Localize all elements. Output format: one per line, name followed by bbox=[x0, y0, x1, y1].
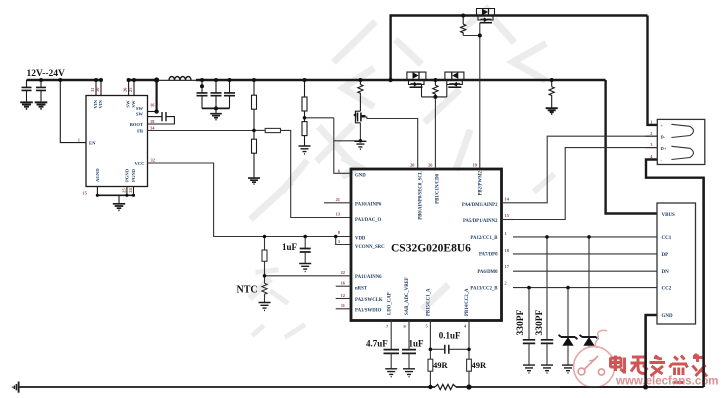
svg-text:nRST: nRST bbox=[355, 286, 368, 291]
resistor R-fb-top chain A bbox=[253, 80, 255, 95]
svg-text:2: 2 bbox=[650, 131, 652, 136]
ground mosfet node bbox=[354, 141, 366, 149]
svg-text:330PF: 330PF bbox=[516, 309, 526, 335]
svg-text:330PF: 330PF bbox=[535, 309, 545, 335]
wire Q3 gate to IC pin20 bbox=[367, 119, 418, 170]
svg-text:VIN: VIN bbox=[98, 99, 103, 108]
wire SW right vertical bbox=[156, 80, 158, 112]
svg-text:PA4/DM1/AINP2: PA4/DM1/AINP2 bbox=[462, 203, 498, 208]
svg-text:CC1: CC1 bbox=[662, 236, 672, 241]
capacitor COUT3 bbox=[229, 80, 231, 93]
svg-text:EN: EN bbox=[89, 141, 96, 146]
ground regulator bbox=[113, 204, 125, 211]
svg-text:PB15/CC1_A: PB15/CC1_A bbox=[427, 288, 432, 316]
svg-text:VCONN_SRC: VCONN_SRC bbox=[355, 245, 385, 250]
svg-text:CS32G020E8U6: CS32G020E8U6 bbox=[391, 243, 471, 255]
diode D1 zener bbox=[567, 288, 569, 338]
junction (97.4,195.3) bbox=[96, 194, 99, 197]
svg-text:PB0/AINP0/SEC0_SCL: PB0/AINP0/SEC0_SCL bbox=[419, 171, 424, 220]
junction (304.5,80) bbox=[303, 78, 307, 82]
wire VCC to VDD bbox=[148, 163, 353, 237]
resistor R-fb-bot chain A bbox=[252, 139, 257, 153]
ground C-1uF bbox=[299, 264, 311, 272]
resistor NTC zigzag bbox=[262, 283, 267, 302]
connector J2 body bbox=[657, 203, 696, 324]
capacitor bootstrap bbox=[148, 116, 162, 118]
svg-text:VCC: VCC bbox=[135, 161, 145, 166]
wire AGND/PGND bbox=[96, 187, 98, 196]
regulator U2 body bbox=[86, 96, 148, 187]
wire VIN stubs bbox=[95, 80, 97, 96]
svg-text:PA2/SWCLK: PA2/SWCLK bbox=[355, 298, 383, 303]
inductor L1 bbox=[169, 77, 191, 81]
ground NTC bbox=[259, 303, 271, 311]
junction (469,349.3) bbox=[467, 348, 471, 352]
svg-text:PGND: PGND bbox=[125, 168, 130, 182]
wire top rail bbox=[391, 16, 648, 81]
svg-text:PA10/AINP6: PA10/AINP6 bbox=[355, 203, 382, 208]
ground CIN2 bbox=[35, 102, 48, 109]
junction dot overdraw bbox=[643, 385, 648, 390]
junction (568,287.6) bbox=[566, 286, 570, 290]
wire conn1 pin1 drop bbox=[648, 16, 658, 125]
resistor R-vout zigzag to ground bbox=[551, 80, 553, 87]
resistor R-bridge zigzag bbox=[434, 80, 436, 85]
junction (156.6,111.5) bbox=[154, 109, 158, 113]
junction (551.7,80) bbox=[550, 78, 554, 82]
junction (589,236.9) bbox=[587, 235, 591, 239]
wire VBUS drop bbox=[606, 80, 657, 214]
wire chain B node to IC GND bbox=[305, 117, 334, 119]
svg-text:1uF: 1uF bbox=[282, 242, 298, 252]
left end terminal of bottom rail bbox=[12, 382, 19, 393]
svg-text:SAR_ADC_VREF: SAR_ADC_VREF bbox=[405, 277, 410, 315]
svg-text:PGND: PGND bbox=[131, 168, 136, 182]
svg-text:12V--24V: 12V--24V bbox=[27, 69, 65, 79]
junction (96,80) bbox=[94, 78, 98, 82]
diode D2 zener bbox=[588, 237, 590, 338]
svg-text:SW: SW bbox=[136, 111, 144, 116]
svg-text:CC2: CC2 bbox=[662, 287, 672, 292]
junction (133.5,195.3) bbox=[132, 194, 135, 197]
capacitor 0.1uF bbox=[430, 348, 444, 350]
wire bridge to IC pin26 bbox=[434, 97, 436, 169]
svg-text:PB14/CC2_A: PB14/CC2_A bbox=[465, 288, 470, 316]
ground chain B bbox=[299, 146, 311, 154]
capacitor COUT1 bbox=[201, 80, 203, 93]
wire conn1 pin2/3 stubs bbox=[645, 135, 657, 137]
svg-text:SW: SW bbox=[126, 100, 131, 108]
junction (435.4,80) bbox=[433, 78, 437, 82]
svg-text:1uF: 1uF bbox=[409, 339, 425, 349]
wire SW/VOUT rail bbox=[129, 79, 157, 81]
ground output caps bbox=[215, 108, 217, 113]
ground C-1uF-SAR bbox=[403, 369, 415, 377]
resistor chain B bottom bbox=[302, 122, 307, 136]
svg-text:12: 12 bbox=[341, 293, 345, 298]
junction (463.2,15.5) bbox=[461, 14, 465, 18]
junction (229.5,80) bbox=[228, 78, 232, 82]
svg-text:22: 22 bbox=[341, 270, 345, 275]
wire CC2_A column bbox=[468, 320, 470, 359]
capacitor CIN1 bbox=[22, 80, 32, 101]
svg-text:PA11/AINN6: PA11/AINN6 bbox=[355, 275, 382, 280]
junction (202,80) bbox=[200, 78, 204, 82]
svg-text:49R: 49R bbox=[472, 360, 488, 370]
transistor Q4 (top mosfet) bbox=[477, 9, 495, 23]
wire source bridge bbox=[422, 96, 447, 98]
junction (360.4,140.8) bbox=[359, 139, 363, 143]
junction (156.6,80) bbox=[154, 77, 159, 82]
junction (645.6,387) bbox=[643, 385, 648, 390]
ground R-vout bbox=[546, 108, 558, 114]
svg-text:PA5/DP1/AINN2: PA5/DP1/AINN2 bbox=[463, 219, 498, 224]
svg-text:GND: GND bbox=[662, 314, 674, 319]
junction (305.2,236.5) bbox=[303, 235, 307, 239]
wire conn1 gnd to right rail bbox=[646, 160, 704, 388]
junction (126.9,195.3) bbox=[125, 194, 128, 197]
wire NTC node to pin22 bbox=[265, 275, 352, 277]
resistor chain B top bbox=[304, 80, 306, 97]
connector J2 labels bbox=[662, 213, 676, 319]
wire caps common bbox=[202, 107, 230, 109]
svg-text:BOOT: BOOT bbox=[130, 122, 143, 127]
wire SW top stubs bbox=[128, 80, 130, 96]
svg-text:NTC: NTC bbox=[237, 285, 258, 296]
capacitor CIN2 bbox=[36, 80, 46, 101]
red watermark CJK text 电子发烧友 bbox=[611, 354, 708, 383]
svg-text:PA6/DM0: PA6/DM0 bbox=[477, 270, 498, 275]
svg-text:49R: 49R bbox=[433, 360, 449, 370]
capacitor COUT2 bbox=[215, 80, 217, 93]
junction (264.5,236.5) bbox=[263, 235, 267, 239]
wire mosfet gnd node bbox=[334, 140, 361, 142]
svg-text:4.7uF: 4.7uF bbox=[366, 339, 388, 349]
junction (479.8,35.5) bbox=[478, 34, 482, 38]
junction (60.3,80) bbox=[58, 78, 62, 82]
junction (529,287.6) bbox=[527, 286, 531, 290]
resistor 49R #2 bbox=[467, 359, 472, 371]
svg-text:GND: GND bbox=[355, 174, 366, 179]
IC U1 body bbox=[351, 169, 502, 321]
svg-text:21: 21 bbox=[336, 197, 340, 202]
svg-text:LDO_CAP: LDO_CAP bbox=[388, 292, 393, 315]
svg-text:FB: FB bbox=[137, 128, 143, 133]
svg-text:1: 1 bbox=[78, 138, 80, 143]
svg-text:PA12/CC1_B: PA12/CC1_B bbox=[470, 236, 498, 241]
transistor Q1 (left of pair, body diode on top) bbox=[407, 72, 426, 97]
svg-text:PA13/CC2_B: PA13/CC2_B bbox=[470, 286, 498, 291]
resistor R-gate Q4 zigzag bbox=[462, 16, 464, 25]
ground C-330PF1 bbox=[523, 365, 535, 373]
junction (202,86.3) bbox=[200, 84, 204, 88]
resistor 0R bottom zigzag bbox=[435, 384, 456, 389]
IC pin stubs right bbox=[502, 202, 514, 204]
svg-text:PA1/SWDIO: PA1/SWDIO bbox=[355, 309, 382, 314]
wire IC left stubs bbox=[324, 202, 351, 204]
junction (547,236.9) bbox=[545, 235, 549, 239]
elecfans logo circle bbox=[574, 330, 615, 387]
capacitor 330PF #2 bbox=[546, 236, 548, 339]
svg-text:+: + bbox=[661, 123, 664, 128]
resistor R-ntc-top bbox=[264, 237, 266, 251]
svg-text:VDD: VDD bbox=[355, 237, 366, 242]
junction (254,80) bbox=[252, 78, 256, 82]
ground chain A bbox=[248, 178, 260, 184]
svg-text:D-: D- bbox=[661, 135, 666, 140]
svg-text:0.1uF: 0.1uF bbox=[439, 331, 461, 341]
junction (430.4,387) bbox=[428, 385, 432, 389]
connector J1 (USB) body bbox=[657, 119, 705, 164]
junction (254,130.4) bbox=[252, 129, 256, 133]
junction (435.4,96.9) bbox=[433, 95, 437, 99]
faint gray diagonal watermark strokes bbox=[252, 9, 552, 336]
ground CIN1 bbox=[20, 102, 33, 109]
junction (264.5,275.8) bbox=[263, 274, 267, 278]
junction (41,80) bbox=[39, 78, 43, 82]
USB prong lower bbox=[671, 146, 693, 159]
junction (469,387) bbox=[466, 384, 471, 389]
svg-text:PA7/DP0: PA7/DP0 bbox=[479, 253, 498, 258]
capacitor 4.7uF bbox=[390, 320, 392, 349]
svg-text:AGND: AGND bbox=[95, 168, 100, 182]
svg-text:D+: D+ bbox=[661, 146, 667, 151]
svg-text:PB1/C1N/CD0: PB1/C1N/CD0 bbox=[436, 173, 441, 203]
transistor Q3 bbox=[353, 95, 367, 123]
junction (128.6,80) bbox=[127, 78, 131, 82]
junction (360.4,80) bbox=[358, 78, 362, 82]
resistor 49R #1 bbox=[428, 359, 433, 371]
junction (101,80) bbox=[99, 78, 103, 82]
junction (390.6,80) bbox=[388, 78, 392, 82]
connector J1 labels bbox=[650, 120, 653, 160]
wire bottom ground rail bbox=[19, 386, 435, 388]
wire FB bbox=[148, 130, 255, 132]
capacitor 1uF (SAR) bbox=[408, 320, 410, 349]
svg-text:VBUS: VBUS bbox=[662, 213, 676, 218]
ground D1 bbox=[562, 365, 574, 373]
capacitor 1uF (VDD) bbox=[304, 237, 306, 249]
junction (430.4,349.3) bbox=[429, 348, 433, 352]
resistor R-gate Q3 (zigzag) bbox=[359, 80, 361, 85]
wire EN branch bbox=[60, 80, 86, 143]
transistor Q2 (right of pair) bbox=[445, 72, 464, 97]
wire CC1_A column bbox=[429, 320, 431, 359]
node 12V input rail bbox=[27, 79, 102, 81]
svg-text:1: 1 bbox=[650, 120, 652, 125]
resistor R-fb-horizontal bbox=[254, 129, 265, 131]
component value labels bbox=[237, 242, 545, 370]
svg-text:DN: DN bbox=[662, 270, 670, 275]
svg-text:PB2/PWM2: PB2/PWM2 bbox=[479, 170, 484, 195]
junction (216,108.4) bbox=[214, 106, 218, 110]
wire conn2 gnd drop bbox=[646, 315, 657, 387]
wire IC right signal lines bbox=[513, 136, 657, 203]
svg-text:1: 1 bbox=[505, 231, 507, 236]
svg-text:32: 32 bbox=[151, 158, 155, 163]
USB prong upper bbox=[671, 124, 693, 137]
svg-text:DP: DP bbox=[662, 253, 669, 258]
junction (335.7,236.5) bbox=[334, 235, 338, 239]
regulator U2 labels bbox=[0, 0, 1, 1]
junction (134,80) bbox=[132, 78, 136, 82]
svg-text:2: 2 bbox=[505, 280, 507, 285]
junction (216,80) bbox=[214, 78, 218, 82]
svg-text:11: 11 bbox=[341, 303, 345, 308]
svg-text:PA3/DAC_O: PA3/DAC_O bbox=[355, 218, 382, 223]
ground C-330PF2 bbox=[541, 365, 553, 373]
capacitor 330PF #1 bbox=[528, 288, 530, 340]
wire right rail overdraw bbox=[560, 178, 704, 387]
junction (304.5,117.8) bbox=[303, 116, 307, 120]
ground C-4.7uF bbox=[385, 369, 397, 377]
wire Q4 gate drop to IC pin19 bbox=[479, 23, 481, 169]
